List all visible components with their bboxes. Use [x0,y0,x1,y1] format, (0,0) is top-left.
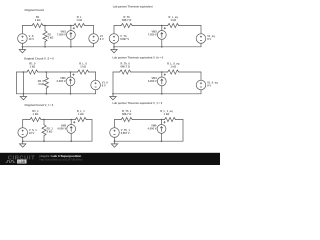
svg-text:Lab partner Thevenin equivalen: Lab partner Thevenin equivalent V_1 = 0 [113,101,163,105]
wire top-left segment (row3 left) [23,119,30,121]
wire top middle (row2 right) [131,71,168,73]
resistor R1_1 [30,117,41,121]
junction dots (row2 right) [112,71,162,94]
resistor R2_1 [42,125,46,136]
resistor R_Th_1 [121,117,132,121]
wire left branch upper (row1 left) [21,26,23,34]
svg-text:1 kΩ: 1 kΩ [170,18,176,22]
ground (row2 right) [110,94,116,100]
wire VM4 branch upper [161,72,163,77]
wire left branch lower (row3 left) [22,137,24,141]
wire right branch lower (row1 right) [200,43,202,47]
svg-text:6.667 V: 6.667 V [120,37,129,41]
ground (row3 left) [20,141,26,147]
svg-text:3.200 V: 3.200 V [57,79,66,83]
wire left branch shorted V_Th (row2 right) [112,72,114,94]
wire top-left segment (row1 right) [114,25,121,27]
wire top right (row1 left) [85,25,94,27]
wire top middle (row2 left) [38,71,78,73]
wire VM2 branch lower [161,39,163,47]
wire left branch lower (row1 left) [21,43,23,47]
wire right branch shorted V1_eq (row3 right) [182,120,184,142]
voltmeter VM5 [67,121,76,133]
wire top-left segment (row2 right) [113,71,120,73]
wire VM2 branch upper [161,26,163,31]
wire right branch upper (row2 right) [200,72,202,80]
resistor R2_0 [44,77,48,88]
resistor R_L_0_eq [168,70,179,74]
svg-text:Original Circuit: Original Circuit [25,8,45,12]
resistor R_L_1 [75,117,86,121]
svg-text:4.000 V: 4.000 V [148,127,157,131]
voltmeter VM4 [157,74,166,86]
wire VM6 branch upper [161,120,163,125]
svg-text:1 kΩ: 1 kΩ [33,112,39,116]
svg-text:1 kΩ: 1 kΩ [76,18,82,22]
voltmeter VM2 [157,27,166,39]
wire right branch lower (row2 right) [200,90,202,94]
wire right branch upper (row2 left) [95,72,97,80]
junction dots (row2 left) [23,71,72,94]
wire right branch upper (row1 left) [93,26,95,34]
wire top-left segment (row3 right) [115,119,122,121]
wire top right (row2 right) [179,71,201,73]
wire R2_1 branch lower [43,136,45,142]
FOOTER BAR [0,153,220,165]
wire top middle (row1 right) [132,25,168,27]
svg-text:3.200 V: 3.200 V [148,79,157,83]
wire VM1 branch lower [70,39,72,47]
resistor R_Th [121,23,132,27]
resistor R_L [74,23,85,27]
wire bottom (row2 left) [17,93,96,95]
wire left branch upper (row1 right) [113,26,115,34]
wire top middle (row1 left) [43,25,74,27]
resistor R_L_eq [168,23,179,27]
wire top right (row3 right) [176,119,184,121]
wire top middle (row3 right) [132,119,164,121]
wire left branch upper (row3 left) [22,120,24,128]
svg-text:10 V: 10 V [29,37,35,41]
wire VM3 branch lower [70,86,72,94]
resistor R_L_1_eq [165,117,176,121]
wire bottom (row3 left) [23,140,92,142]
voltage source V1_0_eq [196,80,206,90]
junction dots (row1 left) [22,25,72,48]
wire right branch upper (row1 right) [200,26,202,34]
wire VM1 branch upper [70,26,72,31]
voltage source V_S_1 [18,128,28,138]
wire bottom (row1 left) [22,46,93,48]
wire top middle (row3 left) [41,119,75,121]
svg-text:6.667 V: 6.667 V [121,131,130,135]
wire VM4 branch lower [161,86,163,94]
svg-text:4.000 V: 4.000 V [57,127,66,131]
svg-text:2 kΩ: 2 kΩ [48,36,54,40]
svg-text:1 kΩ: 1 kΩ [78,112,84,116]
svg-text:1 kΩ: 1 kΩ [80,65,86,69]
junction dots (row1 right) [113,25,162,48]
svg-text:8 V: 8 V [207,37,211,41]
junction dots (row3 left) [22,119,72,142]
wire top right (row2 left) [89,71,96,73]
svg-text:7.200 V: 7.200 V [57,33,66,37]
svg-text:1 kΩ: 1 kΩ [30,65,36,69]
wire left branch lower (row1 right) [113,43,115,47]
voltage source V1_0 [91,80,101,90]
wire VM3 branch upper [70,72,72,77]
svg-text:8 V: 8 V [102,83,106,87]
svg-text:8 V: 8 V [100,37,104,41]
svg-text:10 V: 10 V [29,131,35,135]
svg-text:1 kΩ: 1 kΩ [35,18,41,22]
wire R2_1 branch upper [43,120,45,125]
resistor R1 [32,23,43,27]
resistor R_L_0 [78,70,89,74]
voltage source V_Th_1 [110,128,120,138]
wire top-left segment (row2 left) [17,71,27,73]
voltage source V_S [18,34,28,44]
svg-text:Original Circuit V_S = 0: Original Circuit V_S = 0 [24,57,54,61]
wire left branch upper (row3 right) [114,120,116,128]
wire left branch lower (row3 right) [114,137,116,141]
wire VM5 branch lower [70,133,72,141]
svg-text:8 V: 8 V [207,83,211,87]
ground (row1 right) [111,47,117,53]
resistor R2 [43,31,47,42]
ground (row1 left) [19,47,25,53]
wire R2_0 branch upper [45,72,47,77]
wire top right (row1 right) [179,25,201,27]
svg-text:2 kΩ: 2 kΩ [38,82,44,86]
voltage source V1_eq [196,34,206,44]
svg-text:LAB: LAB [19,160,26,164]
wire top right (row3 left) [86,119,92,121]
wire R2_0 branch lower [45,88,47,94]
ground (row2 left) [20,94,26,100]
wire VM6 branch lower [161,133,163,141]
svg-text:7.200 V: 7.200 V [148,33,157,37]
wire top-left segment (row1 left) [22,25,32,27]
wire shorted V_S branch [22,72,24,94]
svg-text:666.7 Ω: 666.7 Ω [122,112,131,116]
voltage source V_Th [109,34,119,44]
wire bottom (row1 right) [114,46,201,48]
svg-text:Original Circuit V_I = 0: Original Circuit V_I = 0 [25,103,54,107]
svg-text:Lab partner Thevenin equivalen: Lab partner Thevenin equivalent V_th = 0 [113,55,164,59]
wire VM5 branch upper [70,120,72,125]
voltmeter VM1 [67,27,76,39]
wire R2 branch lower [44,42,46,47]
logo LAB box [17,160,26,164]
junction dots (row3 right) [114,119,163,142]
wire bottom (row3 right) [115,140,184,142]
ground (row3 right) [111,141,117,147]
wire left branch (row2 left) [16,72,18,94]
svg-text:1 kΩ: 1 kΩ [170,65,176,69]
resistor R1_0 [27,70,38,74]
logo squarewave [6,161,15,163]
voltmeter VM3 [66,74,75,86]
resistor R_Th_0 [120,70,131,74]
wire right branch lower (row2 left) [95,90,97,94]
voltmeter VM6 [157,121,166,133]
svg-text:Lab partner Thevenin equivalen: Lab partner Thevenin equivalent [113,5,153,9]
wire right branch lower (row1 left) [93,43,95,47]
wire bottom (row2 right) [113,93,201,95]
voltage source V1 [89,34,99,44]
svg-text:2 kΩ: 2 kΩ [47,130,53,134]
wire right branch shorted V1 (row3 left) [91,120,93,142]
svg-text:666.7 Ω: 666.7 Ω [122,18,131,22]
svg-text:1 kΩ: 1 kΩ [164,112,170,116]
wire R2 branch upper [44,26,46,31]
svg-text:http://circuitlab.com/c6247d8u: http://circuitlab.com/c6247d8u9hby [39,158,83,162]
svg-text:666.7 Ω: 666.7 Ω [121,65,130,69]
